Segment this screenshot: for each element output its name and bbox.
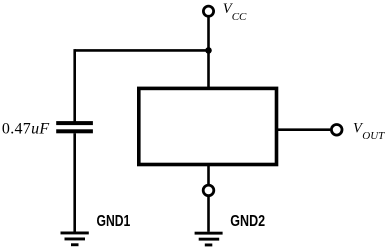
- wire junction down to U1 top pin: [207, 50, 210, 88]
- wire junction to capacitor branch (horizontal): [75, 49, 209, 52]
- ground GND2 symbol: [195, 232, 223, 247]
- wire terminal to GND2: [207, 197, 210, 232]
- svg-text:GND1: GND1: [97, 213, 131, 230]
- svg-text:GND2: GND2: [230, 213, 265, 230]
- node junction dot: [205, 47, 212, 54]
- wire capacitor top lead: [73, 49, 76, 121]
- wire U1 bottom pin to terminal: [207, 166, 210, 184]
- terminal Vcc (open circle): [203, 6, 213, 16]
- wire Vcc terminal to junction: [207, 17, 210, 51]
- svg-text:0.47uF: 0.47uF: [2, 121, 50, 138]
- terminal bottom (open circle): [203, 185, 214, 196]
- terminal Vout (open circle): [331, 125, 342, 136]
- svg-text:CC: CC: [232, 11, 247, 23]
- wire capacitor bottom lead: [73, 133, 76, 231]
- ground GND1 symbol: [61, 232, 89, 247]
- wire U1 output to Vout terminal: [278, 128, 330, 131]
- capacitor C1 plates: [56, 121, 93, 125]
- IC U1 (block): [139, 88, 277, 164]
- svg-text:OUT: OUT: [362, 130, 385, 142]
